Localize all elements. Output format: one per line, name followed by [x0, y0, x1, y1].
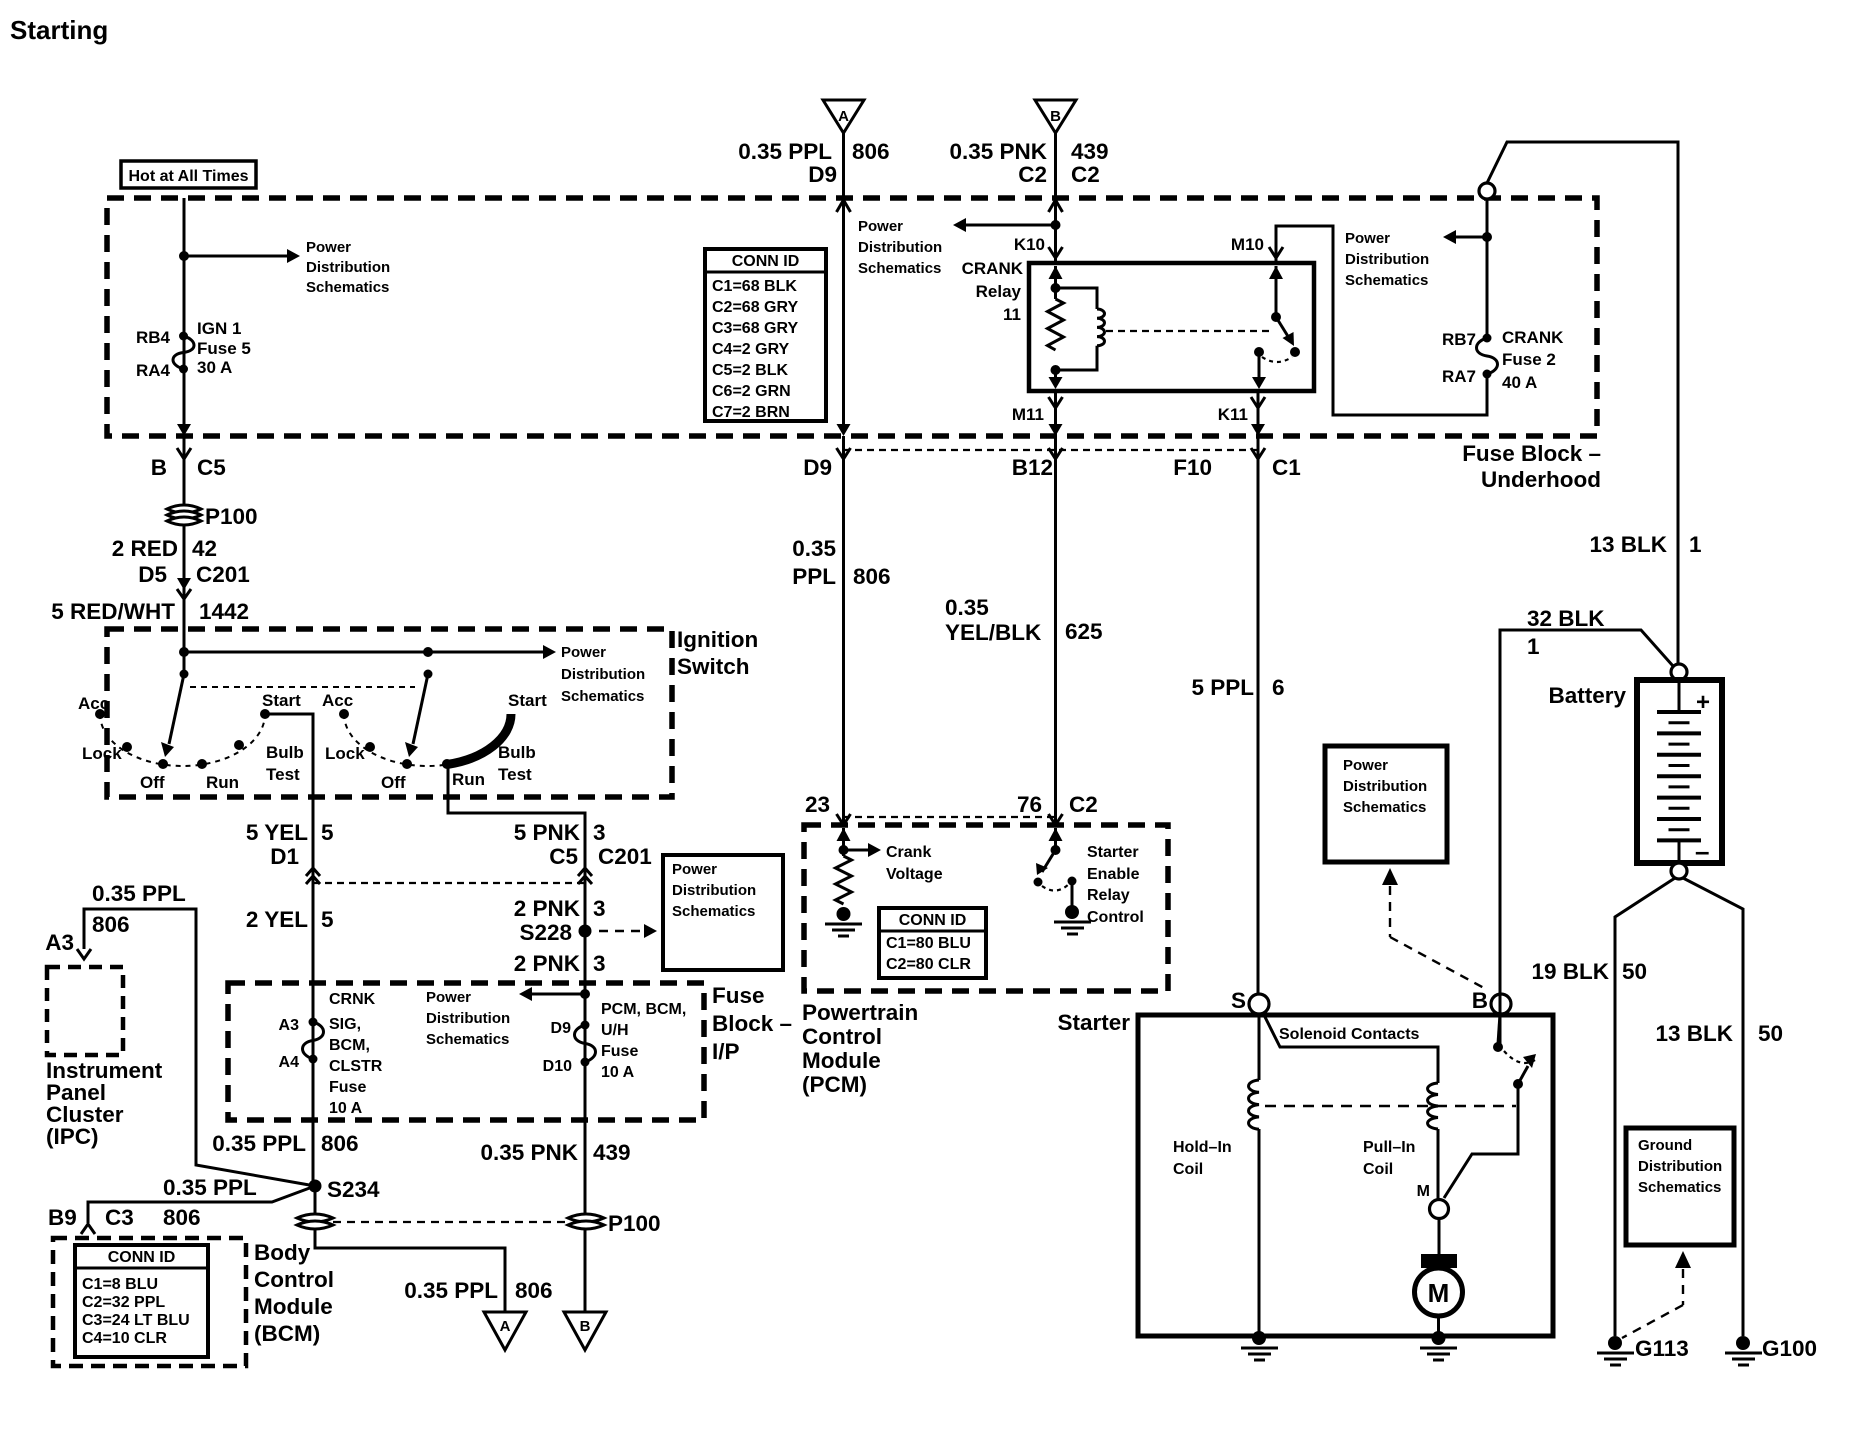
wire D9 to PCM (0.35 PPL 806) [792, 436, 890, 825]
svg-text:M10: M10 [1231, 235, 1264, 254]
pin F10 C1 below box [1173, 448, 1301, 480]
connector C201 dashed boundary [313, 882, 585, 884]
svg-text:Start: Start [262, 691, 301, 710]
wire B terminal down [1498, 1014, 1500, 1044]
wire label 5 YEL 5 D1 [246, 820, 334, 869]
svg-text:D9: D9 [808, 162, 837, 187]
svg-text:Relay: Relay [976, 282, 1022, 301]
Power Distribution Schematics box (mid) [663, 855, 783, 970]
PCM CONN ID table [879, 908, 986, 978]
pin B9 chevron [81, 1224, 95, 1234]
svg-text:CRNK: CRNK [329, 991, 376, 1008]
svg-text:Test: Test [498, 765, 532, 784]
svg-text:76: 76 [1017, 792, 1042, 817]
svg-text:Schematics: Schematics [1345, 272, 1428, 289]
wire 2 PNK segment [514, 868, 606, 1213]
svg-text:Control: Control [802, 1024, 882, 1049]
wire PPL through fuse block (x=843) [837, 198, 851, 436]
svg-text:B: B [1472, 988, 1488, 1013]
svg-text:Start: Start [508, 691, 547, 710]
Fuse Block Underhood name [1462, 441, 1601, 492]
svg-text:C6=2 GRN: C6=2 GRN [712, 383, 791, 400]
svg-text:A4: A4 [279, 1054, 300, 1071]
node junction on IGN1 feed [179, 251, 189, 261]
svg-text:Fuse: Fuse [329, 1079, 366, 1096]
svg-text:2 PNK: 2 PNK [514, 951, 581, 976]
node junction battery feed [1482, 232, 1492, 242]
svg-text:CLSTR: CLSTR [329, 1058, 383, 1075]
pin D1 connector chevrons [306, 868, 320, 884]
svg-text:Lock: Lock [82, 744, 122, 763]
svg-text:5 YEL: 5 YEL [246, 820, 308, 845]
svg-text:3: 3 [593, 820, 606, 845]
svg-text:13 BLK: 13 BLK [1589, 532, 1667, 557]
pin B C5 below fuse block [151, 448, 226, 480]
fuse CRANK Fuse 2 40 A [1442, 328, 1564, 392]
svg-text:Module: Module [802, 1048, 881, 1073]
ground (crank voltage) [825, 907, 862, 936]
wire gang2 Run output [448, 764, 585, 868]
svg-text:IGN 1: IGN 1 [197, 319, 241, 338]
ground (hold-in coil) [1241, 1331, 1278, 1360]
wire label 0.35 PPL 806 D9 [738, 139, 889, 187]
svg-text:Powertrain: Powertrain [802, 1000, 918, 1025]
wire IGN1 feed (x=184) [177, 198, 191, 436]
svg-text:A3: A3 [279, 1017, 300, 1034]
svg-text:1: 1 [1689, 532, 1702, 557]
svg-text:I/P: I/P [712, 1039, 740, 1064]
svg-text:B: B [151, 455, 167, 480]
svg-text:Starter: Starter [1087, 844, 1139, 861]
terminal S [1231, 988, 1269, 1014]
wire from triangle B to fuse block [1054, 133, 1057, 198]
svg-text:Bulb: Bulb [498, 743, 536, 762]
battery cell plates [1657, 712, 1701, 840]
fuse PCM BCM U/H 10 A [543, 1001, 687, 1081]
svg-text:S234: S234 [327, 1177, 380, 1202]
svg-text:A: A [838, 108, 849, 125]
svg-text:Run: Run [452, 770, 485, 789]
svg-text:10 A: 10 A [329, 1100, 363, 1117]
svg-text:Schematics: Schematics [858, 260, 941, 277]
svg-text:PCM, BCM,: PCM, BCM, [601, 1001, 686, 1018]
wire label 0.35 PPL 806 (BCM out) [404, 1278, 552, 1303]
svg-text:Distribution: Distribution [1343, 778, 1427, 795]
splice S228 [519, 920, 591, 945]
svg-text:0.35 PPL: 0.35 PPL [92, 881, 186, 906]
svg-text:B: B [580, 1318, 591, 1335]
Fuse Block I/P name [712, 983, 792, 1064]
svg-text:Test: Test [266, 765, 300, 784]
svg-text:439: 439 [1071, 139, 1109, 164]
splice S234 [309, 1177, 381, 1202]
node ignition feed junction [179, 647, 189, 657]
terminal B [1472, 988, 1511, 1014]
svg-text:C5=2 BLK: C5=2 BLK [712, 362, 788, 379]
wire label 5 RED/WHT 1442 [51, 599, 249, 624]
svg-text:C4=10 CLR: C4=10 CLR [82, 1330, 167, 1347]
svg-text:Starter: Starter [1057, 1010, 1130, 1035]
wire IPC 0.35 PPL 806 [45, 881, 315, 1186]
Power Distribution Schematics box (battery) [1325, 746, 1447, 862]
svg-text:CONN ID: CONN ID [108, 1249, 176, 1266]
svg-text:Distribution: Distribution [672, 882, 756, 899]
svg-text:P100: P100 [205, 504, 258, 529]
pin D9 below box [803, 448, 850, 480]
svg-text:Module: Module [254, 1294, 333, 1319]
svg-text:Schematics: Schematics [306, 279, 389, 296]
svg-text:Fuse: Fuse [601, 1043, 638, 1060]
arrow to Power Distribution Schematics (I/P) [426, 987, 585, 1048]
relay coil winding [1056, 288, 1105, 370]
svg-text:Power: Power [561, 644, 606, 661]
svg-text:19 BLK: 19 BLK [1531, 959, 1609, 984]
connector triangle A (top) [823, 100, 864, 133]
wire label 19 BLK 50 [1531, 959, 1647, 984]
svg-text:0.35 PPL: 0.35 PPL [212, 1131, 306, 1156]
node junction PNK in I/P [580, 989, 590, 999]
svg-text:Relay: Relay [1087, 887, 1130, 904]
svg-text:G100: G100 [1762, 1336, 1817, 1361]
svg-text:(BCM): (BCM) [254, 1321, 320, 1346]
CRANK relay U-relay box [962, 259, 1314, 391]
svg-text:Control: Control [1087, 909, 1144, 926]
svg-text:B9: B9 [48, 1205, 77, 1230]
battery positive terminal [1671, 664, 1687, 680]
svg-text:Schematics: Schematics [561, 688, 644, 705]
svg-text:C201: C201 [196, 562, 250, 587]
wire 32 BLK 1 from B to battery [1500, 606, 1673, 1044]
svg-text:11: 11 [1003, 305, 1021, 324]
solenoid contacts label [1279, 1026, 1420, 1043]
svg-text:Hold–In: Hold–In [1173, 1139, 1232, 1156]
svg-text:F10: F10 [1173, 455, 1212, 480]
svg-text:Crank: Crank [886, 844, 931, 861]
svg-text:Distribution: Distribution [426, 1010, 510, 1027]
connector triangle A (bottom) [484, 1312, 526, 1350]
relay switch contact [1252, 266, 1300, 389]
svg-text:5: 5 [321, 907, 334, 932]
svg-text:K11: K11 [1218, 405, 1248, 424]
svg-text:0.35 PNK: 0.35 PNK [949, 139, 1047, 164]
ground (starter motor) [1420, 1331, 1457, 1360]
svg-text:42: 42 [192, 536, 217, 561]
wire 2 YEL segment [246, 868, 334, 1186]
BCM CONN ID table [75, 1245, 208, 1357]
svg-text:806: 806 [92, 912, 130, 937]
svg-text:C2=32 PPL: C2=32 PPL [82, 1294, 165, 1311]
svg-text:C1: C1 [1272, 455, 1301, 480]
fuse CRNK SIG BCM CLSTR 10 A [279, 991, 383, 1117]
dashed grommet link to P100 [333, 1221, 566, 1223]
svg-text:(IPC): (IPC) [46, 1124, 99, 1149]
Ground Distribution Schematics box [1626, 1128, 1734, 1245]
svg-text:5 RED/WHT: 5 RED/WHT [51, 599, 175, 624]
svg-text:1: 1 [1527, 634, 1540, 659]
wire B12 to PCM (0.35 YEL/BLK 625) [945, 436, 1103, 825]
svg-text:C2=68 GRY: C2=68 GRY [712, 299, 798, 316]
svg-text:0.35 PPL: 0.35 PPL [404, 1278, 498, 1303]
svg-text:RB7: RB7 [1442, 330, 1476, 349]
pin A3 chevron IPC [77, 949, 91, 959]
svg-text:1442: 1442 [199, 599, 249, 624]
starter enable relay control driver [1034, 828, 1144, 926]
svg-text:0.35 PPL: 0.35 PPL [738, 139, 832, 164]
pin C5 C201 chevrons [549, 844, 652, 884]
connector triangle B (top) [1035, 100, 1076, 133]
wire label 2 RED 42 [112, 536, 217, 561]
battery [1548, 680, 1722, 866]
Body Control Module name [254, 1240, 334, 1346]
svg-text:CRANK: CRANK [1502, 328, 1564, 347]
wire label 0.35 PNK 439 (below I/P) [480, 1140, 630, 1165]
svg-text:Lock: Lock [325, 744, 365, 763]
svg-text:2 YEL: 2 YEL [246, 907, 308, 932]
svg-text:23: 23 [805, 792, 830, 817]
svg-text:806: 806 [163, 1205, 201, 1230]
svg-text:Distribution: Distribution [306, 259, 390, 276]
wire label 13 BLK 1 [1589, 532, 1701, 557]
crank voltage sense input [837, 828, 943, 883]
Instrument Panel Cluster dashed box [46, 967, 163, 1149]
svg-text:(PCM): (PCM) [802, 1072, 867, 1097]
svg-text:Distribution: Distribution [858, 239, 942, 256]
dashed gang link [190, 686, 415, 688]
svg-text:Solenoid Contacts: Solenoid Contacts [1279, 1026, 1420, 1043]
ground (starter enable) [1054, 905, 1091, 934]
ignition switch gang 2 [322, 670, 547, 793]
svg-text:Underhood: Underhood [1481, 467, 1601, 492]
svg-text:6: 6 [1272, 675, 1285, 700]
svg-text:Coil: Coil [1173, 1161, 1203, 1178]
svg-text:Distribution: Distribution [561, 666, 645, 683]
dashed arrow to Power Distribution Schematics box [599, 924, 657, 938]
svg-text:0.35 PPL: 0.35 PPL [163, 1175, 257, 1200]
svg-text:Off: Off [381, 773, 406, 792]
svg-text:50: 50 [1758, 1021, 1783, 1046]
svg-text:SIG,: SIG, [329, 1016, 361, 1033]
wire label 5 PNK 3 [514, 820, 606, 845]
svg-text:40 A: 40 A [1502, 373, 1537, 392]
node gang2 tap junction [423, 647, 433, 657]
svg-text:CONN ID: CONN ID [899, 912, 967, 929]
connector triangle B (bottom) [564, 1312, 606, 1350]
hold-in coil [1173, 1014, 1259, 1336]
node junction K10 wire [1051, 220, 1061, 230]
svg-text:C1=68 BLK: C1=68 BLK [712, 278, 797, 295]
svg-text:806: 806 [853, 564, 891, 589]
svg-text:625: 625 [1065, 619, 1103, 644]
svg-text:RA7: RA7 [1442, 367, 1476, 386]
ground G113 [1597, 1336, 1689, 1365]
svg-text:Power: Power [1343, 757, 1388, 774]
pull-in coil [1363, 1083, 1438, 1200]
Ignition Switch dashed box [107, 627, 758, 797]
svg-text:Battery: Battery [1548, 683, 1626, 708]
svg-text:M: M [1428, 1278, 1450, 1308]
Powertrain Control Module dashed box [804, 825, 1168, 991]
svg-text:30 A: 30 A [197, 358, 232, 377]
wire P100 to triangle B [584, 1230, 587, 1312]
svg-text:Power: Power [1345, 230, 1390, 247]
svg-text:D1: D1 [270, 844, 299, 869]
pin M11 wire out of relay [1012, 391, 1063, 436]
pin K10 [1014, 235, 1063, 258]
svg-text:M: M [1417, 1183, 1430, 1200]
svg-text:Starting: Starting [10, 15, 108, 45]
pin 76 C2 [1017, 792, 1098, 825]
svg-text:C5: C5 [197, 455, 226, 480]
BCM CONN ID dashed box [53, 1238, 246, 1366]
svg-text:Distribution: Distribution [1345, 251, 1429, 268]
ground G100 [1725, 1336, 1817, 1365]
pin 23 [805, 792, 851, 825]
svg-text:M11: M11 [1012, 405, 1044, 424]
svg-text:D9: D9 [803, 455, 832, 480]
svg-text:Run: Run [206, 773, 239, 792]
svg-text:C3=24 LT BLU: C3=24 LT BLU [82, 1312, 190, 1329]
svg-text:Ignition: Ignition [677, 627, 758, 652]
connector dashed boundary above PCM [843, 816, 1056, 818]
svg-text:Schematics: Schematics [426, 1031, 509, 1048]
dashed arrow to Power Distribution Schematics (battery) [1382, 868, 1484, 988]
svg-text:S: S [1231, 988, 1246, 1013]
svg-text:0.35: 0.35 [945, 595, 989, 620]
svg-text:Schematics: Schematics [1638, 1179, 1721, 1196]
svg-text:C2=80 CLR: C2=80 CLR [886, 956, 971, 973]
svg-text:0.35 PNK: 0.35 PNK [480, 1140, 578, 1165]
svg-text:RB4: RB4 [136, 328, 171, 347]
svg-text:C3=68 GRY: C3=68 GRY [712, 320, 798, 337]
svg-text:Control: Control [254, 1267, 334, 1292]
svg-text:P100: P100 [608, 1211, 661, 1236]
svg-text:Power: Power [672, 861, 717, 878]
relay actuation dashed link [1106, 330, 1270, 332]
svg-text:C3: C3 [105, 1205, 134, 1230]
wire label 2 PNK 3 (below splice) [514, 951, 606, 976]
svg-text:D5: D5 [138, 562, 167, 587]
svg-text:C2: C2 [1018, 162, 1047, 187]
svg-text:Fuse: Fuse [712, 983, 765, 1008]
relay coil branch (resistor element) [1048, 266, 1064, 389]
connector dashed boundary under fuse block [843, 449, 1262, 451]
wire BCM B9 0.35 PPL 806 [48, 1175, 315, 1230]
svg-text:K10: K10 [1014, 235, 1045, 254]
svg-text:2 PNK: 2 PNK [514, 896, 581, 921]
ignition switch gang 1 [78, 670, 304, 793]
pin M10 and wire to CRANK fuse [1231, 226, 1487, 415]
grommet P100 (right) [568, 1211, 661, 1236]
svg-text:Voltage: Voltage [886, 866, 943, 883]
wire from triangle A to fuse block [842, 133, 845, 198]
wire S to pull-in coil [1263, 1013, 1438, 1083]
svg-text:5 PPL: 5 PPL [1191, 675, 1254, 700]
Fuse Block Underhood dashed box [107, 198, 1597, 436]
svg-text:RA4: RA4 [136, 361, 171, 380]
wire S234 to BCM grommet [314, 1186, 317, 1215]
svg-text:U/H: U/H [601, 1022, 629, 1039]
pin K11 wire out of relay [1218, 391, 1265, 436]
svg-text:3: 3 [593, 951, 606, 976]
wire label 0.35 PPL 806 (below I/P) [212, 1131, 358, 1156]
wire battery negative split [1615, 878, 1743, 1336]
svg-text:Coil: Coil [1363, 1161, 1393, 1178]
svg-text:Body: Body [254, 1240, 311, 1265]
svg-text:Enable: Enable [1087, 866, 1140, 883]
wire PNK to CRANK relay K10 (x=1055) [1049, 198, 1063, 263]
svg-text:Block –: Block – [712, 1011, 792, 1036]
svg-text:PPL: PPL [792, 564, 836, 589]
CONN ID table (underhood) [705, 249, 826, 421]
arrow to Power Distribution Schematics (relay feed) [858, 218, 1056, 277]
arrow to Power Distribution Schematics (battery feed) [1345, 230, 1487, 289]
svg-text:B12: B12 [1012, 455, 1053, 480]
arrow to Power Distribution Schematics (left box) [184, 239, 390, 296]
svg-text:Acc: Acc [322, 691, 353, 710]
svg-text:C1=80 BLU: C1=80 BLU [886, 935, 971, 952]
terminal M [1417, 1183, 1449, 1219]
svg-text:C5: C5 [549, 844, 578, 869]
svg-text:YEL/BLK: YEL/BLK [945, 620, 1042, 645]
battery positive terminal circle at fuse block [1479, 183, 1495, 199]
svg-text:Power: Power [858, 218, 903, 235]
resistor crank voltage [836, 856, 852, 904]
svg-text:Pull–In: Pull–In [1363, 1139, 1415, 1156]
arrow to Power Distribution Schematics (ignition) [184, 644, 645, 705]
wire BCM output to triangle A [315, 1230, 505, 1312]
svg-text:13 BLK: 13 BLK [1655, 1021, 1733, 1046]
svg-text:50: 50 [1622, 959, 1647, 984]
svg-text:Acc: Acc [78, 694, 109, 713]
svg-text:0.35: 0.35 [792, 536, 836, 561]
wire label 0.35 PNK 439 C2 C2 [949, 139, 1108, 187]
svg-text:10 A: 10 A [601, 1064, 635, 1081]
svg-text:Power: Power [306, 239, 351, 256]
svg-text:Power: Power [426, 989, 471, 1006]
Fuse Block I/P dashed box [228, 983, 704, 1120]
svg-text:D10: D10 [543, 1058, 572, 1075]
svg-text:C2: C2 [1069, 792, 1098, 817]
svg-text:Fuse Block –: Fuse Block – [1462, 441, 1601, 466]
wire battery feed into fuse block [1486, 199, 1489, 338]
svg-text:439: 439 [593, 1140, 631, 1165]
svg-text:S228: S228 [519, 920, 572, 945]
svg-text:5: 5 [321, 820, 334, 845]
splice grommet P100 (left) [167, 504, 258, 529]
wire battery positive to top corner [1487, 142, 1678, 664]
dashed arrow to Ground Distribution Schematics [1622, 1251, 1691, 1338]
svg-text:Fuse 5: Fuse 5 [197, 339, 251, 358]
pin B12 below box [1012, 448, 1063, 480]
svg-text:3: 3 [593, 896, 606, 921]
battery negative terminal [1671, 863, 1687, 879]
solenoid dashed link [1265, 1105, 1516, 1107]
svg-text:806: 806 [321, 1131, 359, 1156]
Powertrain Control Module name [802, 1000, 918, 1097]
Starter box [1057, 1010, 1553, 1336]
wire from fuse block to ignition switch (x=184) [183, 436, 186, 674]
svg-text:2 RED: 2 RED [112, 536, 178, 561]
svg-text:CRANK: CRANK [962, 259, 1024, 278]
svg-text:C7=2 BRN: C7=2 BRN [712, 404, 790, 421]
grommet (BCM) [297, 1214, 333, 1229]
svg-text:Fuse 2: Fuse 2 [1502, 350, 1556, 369]
starter motor M [1415, 1218, 1463, 1336]
svg-text:5 PNK: 5 PNK [514, 820, 581, 845]
svg-text:806: 806 [515, 1278, 553, 1303]
svg-text:Schematics: Schematics [672, 903, 755, 920]
svg-text:CONN ID: CONN ID [732, 253, 800, 270]
